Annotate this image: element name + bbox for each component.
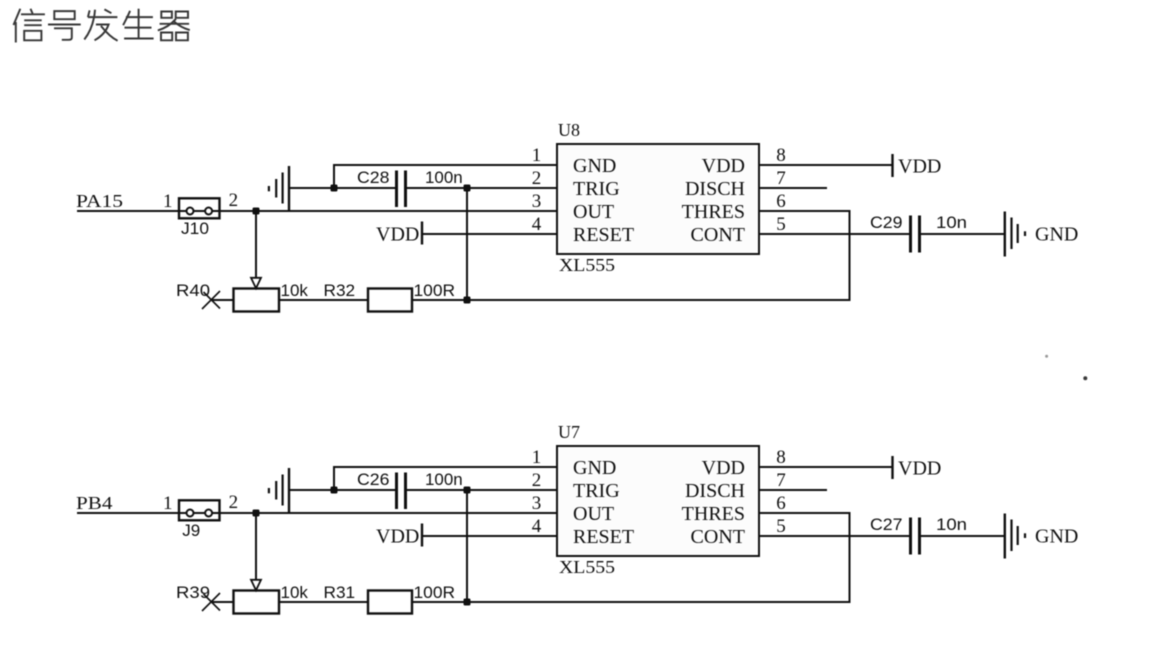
svg-text:J10: J10 [181, 219, 209, 238]
svg-text:R31: R31 [324, 583, 356, 602]
svg-text:U7: U7 [558, 422, 580, 442]
svg-text:C28: C28 [357, 168, 389, 187]
svg-text:R40: R40 [176, 281, 210, 300]
svg-text:C29: C29 [870, 213, 903, 232]
svg-text:PB4: PB4 [76, 493, 113, 513]
svg-text:C26: C26 [357, 470, 389, 489]
svg-text:R39: R39 [176, 583, 210, 602]
svg-text:U8: U8 [558, 120, 580, 140]
svg-text:C27: C27 [870, 515, 903, 534]
svg-text:PA15: PA15 [76, 191, 123, 211]
svg-text:R32: R32 [324, 281, 356, 300]
svg-text:J9: J9 [182, 521, 200, 540]
